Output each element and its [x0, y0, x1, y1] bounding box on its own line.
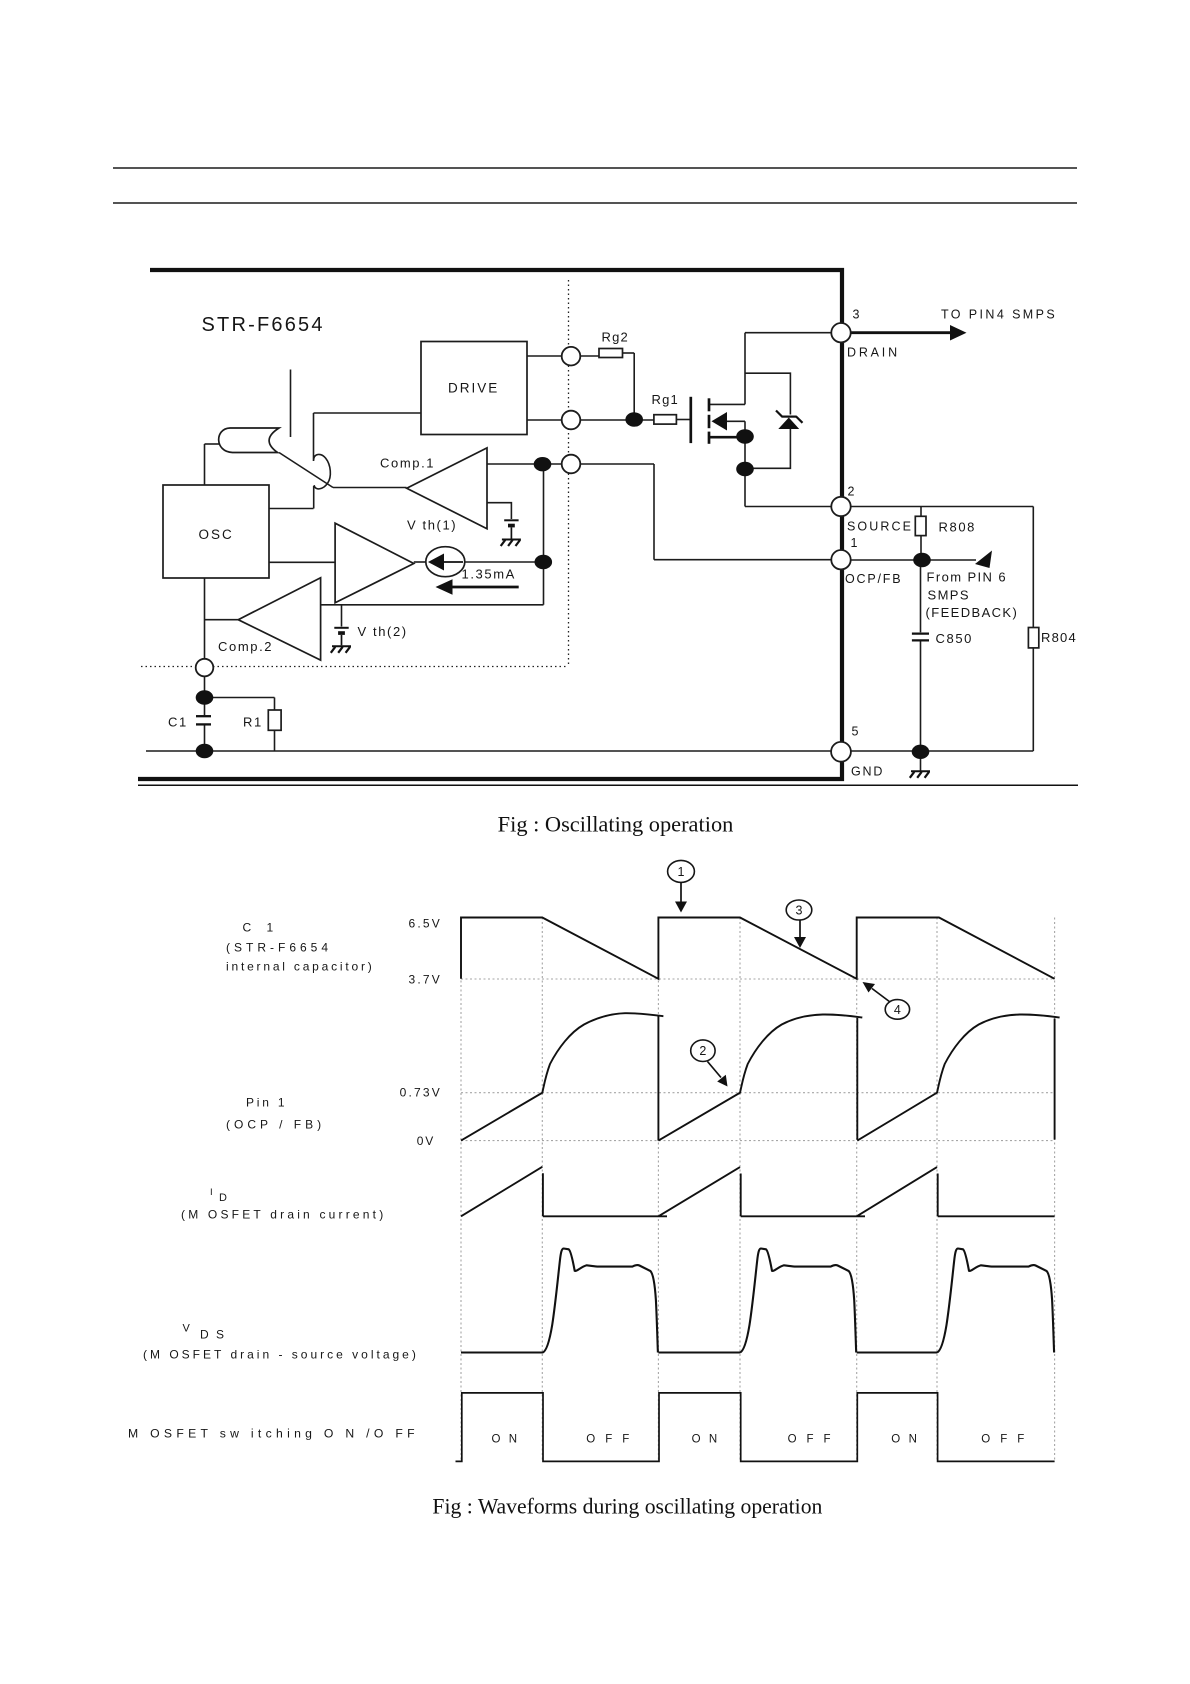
svg-text:R1: R1	[243, 715, 263, 730]
svg-text:O N: O N	[891, 1434, 919, 1446]
svg-text:OSC: OSC	[199, 527, 234, 542]
svg-text:6.5V: 6.5V	[409, 917, 443, 931]
svg-text:OCP/FB: OCP/FB	[845, 572, 902, 586]
svg-text:D: D	[219, 1192, 227, 1204]
svg-text:2: 2	[848, 485, 855, 499]
svg-text:3: 3	[853, 308, 860, 322]
svg-text:V th(2): V th(2)	[358, 624, 408, 639]
svg-text:O F F: O F F	[586, 1434, 632, 1446]
svg-text:O N: O N	[491, 1434, 519, 1446]
svg-text:2: 2	[699, 1044, 706, 1058]
svg-text:3.7V: 3.7V	[409, 973, 443, 987]
svg-text:Pin 1: Pin 1	[246, 1096, 287, 1110]
svg-text:0V: 0V	[417, 1134, 435, 1148]
svg-text:Comp.2: Comp.2	[218, 639, 273, 654]
svg-text:4: 4	[894, 1003, 901, 1017]
svg-text:3: 3	[796, 904, 803, 918]
svg-text:I: I	[210, 1187, 213, 1198]
svg-text:D S: D S	[200, 1328, 226, 1342]
svg-text:(STR-F6654: (STR-F6654	[226, 941, 332, 955]
svg-text:SOURCE: SOURCE	[847, 520, 913, 534]
svg-text:(M OSFET drain - source voltag: (M OSFET drain - source voltage)	[143, 1348, 419, 1362]
svg-text:R808: R808	[939, 520, 976, 535]
svg-text:(OCP / FB): (OCP / FB)	[226, 1118, 325, 1132]
svg-text:STR-F6654: STR-F6654	[202, 314, 325, 336]
svg-text:V: V	[183, 1323, 191, 1335]
svg-text:C850: C850	[936, 631, 973, 646]
svg-text:internal capacitor): internal capacitor)	[226, 960, 375, 974]
svg-text:SMPS: SMPS	[928, 588, 970, 603]
svg-text:DRAIN: DRAIN	[847, 346, 900, 360]
svg-text:DRIVE: DRIVE	[448, 381, 499, 396]
svg-text:M OSFET sw itching O N /O FF: M OSFET sw itching O N /O FF	[128, 1427, 419, 1441]
svg-text:TO PIN4 SMPS: TO PIN4 SMPS	[941, 308, 1057, 322]
svg-text:(M OSFET drain current): (M OSFET drain current)	[181, 1208, 386, 1222]
svg-text:Comp.1: Comp.1	[380, 456, 435, 471]
svg-text:R804: R804	[1041, 630, 1077, 645]
svg-text:O F F: O F F	[981, 1434, 1027, 1446]
svg-text:(FEEDBACK): (FEEDBACK)	[926, 605, 1019, 620]
svg-text:0.73V: 0.73V	[400, 1086, 442, 1100]
svg-text:Rg2: Rg2	[602, 330, 629, 345]
svg-text:1: 1	[851, 536, 858, 550]
svg-text:Fig : Oscillating operation: Fig : Oscillating operation	[498, 812, 734, 837]
svg-text:C 1: C 1	[243, 921, 280, 935]
svg-text:5: 5	[852, 725, 859, 739]
svg-text:O F F: O F F	[788, 1434, 834, 1446]
svg-text:O N: O N	[692, 1434, 720, 1446]
svg-text:1: 1	[678, 865, 685, 879]
svg-text:Fig : Waveforms during oscilla: Fig : Waveforms during oscillating opera…	[432, 1495, 822, 1519]
svg-text:C1: C1	[168, 715, 188, 730]
svg-text:GND: GND	[851, 765, 884, 779]
svg-text:1.35mA: 1.35mA	[462, 567, 516, 582]
svg-text:V th(1): V th(1)	[407, 518, 457, 533]
svg-text:Rg1: Rg1	[652, 392, 679, 407]
svg-text:From PIN 6: From PIN 6	[927, 570, 1007, 585]
